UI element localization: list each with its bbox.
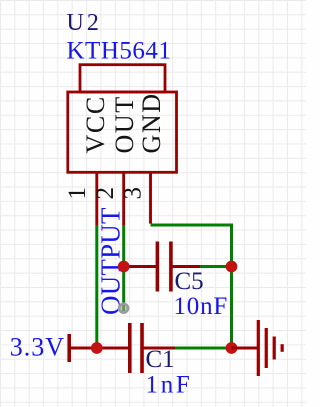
junction C5-GND	[226, 261, 238, 273]
capacitor C5 left pin	[124, 265, 156, 268]
capacitor C5 right pin	[172, 265, 200, 268]
svg-text:10nF: 10nF	[174, 293, 229, 320]
svg-text:3.3V: 3.3V	[10, 333, 65, 362]
pin 1	[95, 172, 98, 225]
power bar	[67, 334, 71, 362]
svg-text:KTH5641: KTH5641	[67, 37, 172, 64]
svg-text:U2: U2	[67, 10, 102, 36]
pin 2	[122, 172, 125, 225]
wire 3.3V net vertical from pin 1	[95, 225, 98, 348]
ground bar 1	[257, 320, 260, 376]
ground bar 2	[265, 328, 268, 368]
wire C1 to GND	[175, 347, 232, 350]
wire 3.3V rail	[69, 347, 130, 350]
capacitor C1 plates	[128, 323, 132, 373]
svg-text:1nF: 1nF	[146, 372, 193, 399]
wire OUTPUT net vertical from pin 2	[122, 225, 125, 303]
IC U2 top tab	[80, 65, 165, 92]
no-ERC marker (gray dot) on node OUTPUT	[119, 304, 128, 313]
svg-text:1: 1	[64, 187, 91, 200]
svg-text:2: 2	[92, 187, 119, 200]
ground bar 4	[281, 344, 284, 352]
svg-text:OUTPUT: OUTPUT	[95, 207, 125, 315]
junction OUT-C5	[118, 261, 130, 273]
capacitor C1 right pin	[143, 347, 175, 350]
wire C5 to GND	[200, 265, 232, 268]
svg-text:OUT: OUT	[110, 95, 139, 153]
svg-text:C5: C5	[175, 268, 204, 295]
pin 3	[149, 172, 152, 223]
capacitor C5 plates	[156, 242, 160, 292]
svg-text:3: 3	[120, 187, 147, 200]
ground bar 3	[273, 337, 276, 360]
wire GND net from pin 3 to right rail	[151, 225, 232, 348]
svg-text:GND: GND	[137, 92, 166, 153]
junction GND rail	[226, 342, 238, 354]
svg-text:C1: C1	[146, 346, 175, 373]
IC U2 body	[68, 92, 177, 172]
svg-text:VCC: VCC	[81, 95, 110, 153]
ground symbol lead	[232, 347, 259, 350]
junction 3.3V-pin1	[91, 342, 103, 354]
